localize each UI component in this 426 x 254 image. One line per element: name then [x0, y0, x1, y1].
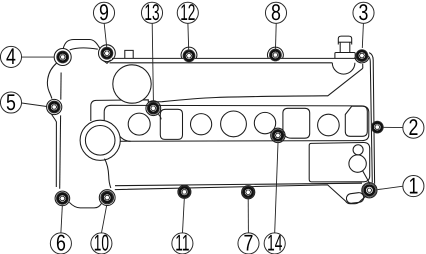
svg-text:9: 9	[99, 0, 109, 25]
svg-text:3: 3	[359, 0, 369, 25]
svg-text:10: 10	[94, 230, 109, 254]
svg-text:2: 2	[408, 114, 418, 140]
svg-text:11: 11	[175, 230, 189, 254]
svg-text:13: 13	[144, 0, 159, 25]
svg-text:14: 14	[267, 230, 282, 254]
svg-text:1: 1	[408, 172, 418, 198]
svg-text:8: 8	[271, 0, 281, 25]
svg-text:5: 5	[6, 89, 16, 115]
svg-text:6: 6	[56, 230, 66, 254]
svg-text:7: 7	[244, 230, 254, 254]
svg-text:4: 4	[6, 43, 16, 69]
svg-text:12: 12	[180, 0, 195, 25]
